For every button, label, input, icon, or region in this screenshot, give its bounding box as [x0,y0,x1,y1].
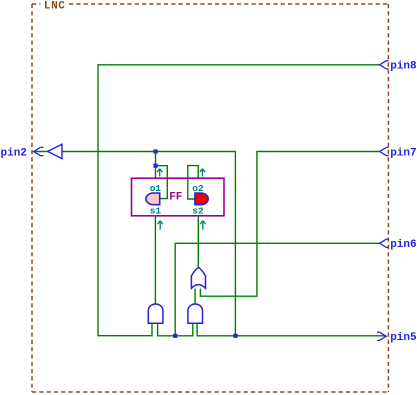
wire net s1: port s1 down to AND U1 output [154,216,156,304]
wire net pin6: from pin6 left to x=175, down to bottom bus segment B [175,243,379,335]
port arrow o1 (teal up) [157,169,162,177]
wire net s2: port s2 down to OR U3 output [197,216,199,267]
AND gate U1 [148,304,163,323]
svg-text:pin5: pin5 [390,332,417,344]
port arrow o2 (teal up) [200,169,205,177]
wire bus segment C: U2 input B right to pin5 [197,323,386,336]
port arrow s1 (teal up) [158,221,163,230]
port arrow s2 (teal up) [200,221,205,230]
buffer to pin2 (triangle) [48,144,62,158]
svg-text:pin6: pin6 [390,239,416,251]
wire net o1 vertical: port o1 up to pin2 wire, with branch staple into FF to latch o1 [156,152,168,199]
OR gate U3 [191,267,205,288]
FF box U0 [132,178,225,216]
wire bus segment B: U1 input B to U2 input A [158,323,193,336]
wire net u2out: AND U2 output up to OR U3 input A [194,289,196,304]
latch element o2 (red D pointing right) [195,193,208,205]
junction dot net pin6 on bus [173,334,177,338]
pin pin7 arrowhead [380,147,389,155]
wire net pin7: from pin7 left to x=257, down, left along y=296 to OR U3 input B [200,152,379,297]
pin pin8 arrowhead [380,61,389,69]
junction dot net o1 staple [153,164,157,168]
AND gate U2 [188,304,203,323]
junction dot net o1 at pin2 wire [153,149,157,153]
svg-text:pin7: pin7 [390,147,416,159]
junction dot net o1 at bus [233,334,237,338]
pin pin6 arrowhead [380,239,389,247]
wire net o2 staple: latch o2 to port o2 [188,166,198,199]
svg-text:FF: FF [169,192,182,204]
pin pin5 arrowhead (output) [377,332,386,340]
svg-text:s2: s2 [192,206,204,217]
latch element o1 (pink D pointing left) [146,193,160,205]
pin pin2 arrowhead [34,147,44,155]
svg-text:s1: s1 [150,206,162,217]
svg-text:pin8: pin8 [390,61,417,73]
wire net pin8: from pin8 left, down left side, to AND U1 input A [98,65,380,336]
svg-text:LNC: LNC [44,0,66,12]
wire net o1/pin2/pin5: buffer output to pin2, right to x=235, down to bus segment C [34,152,236,336]
svg-text:pin2: pin2 [1,147,27,159]
